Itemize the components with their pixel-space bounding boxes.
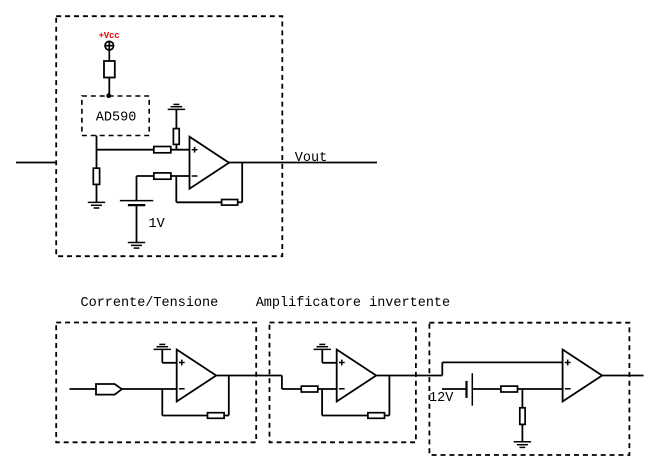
svg-text:Amplificatore invertente: Amplificatore invertente bbox=[256, 296, 450, 311]
svg-text:Corrente/Tensione: Corrente/Tensione bbox=[81, 296, 219, 311]
svg-text:+Vcc: +Vcc bbox=[99, 31, 120, 41]
svg-text:AD590: AD590 bbox=[96, 110, 137, 125]
svg-text:1V: 1V bbox=[149, 217, 166, 232]
svg-text:Vout: Vout bbox=[295, 151, 327, 166]
svg-text:12V: 12V bbox=[429, 391, 454, 406]
